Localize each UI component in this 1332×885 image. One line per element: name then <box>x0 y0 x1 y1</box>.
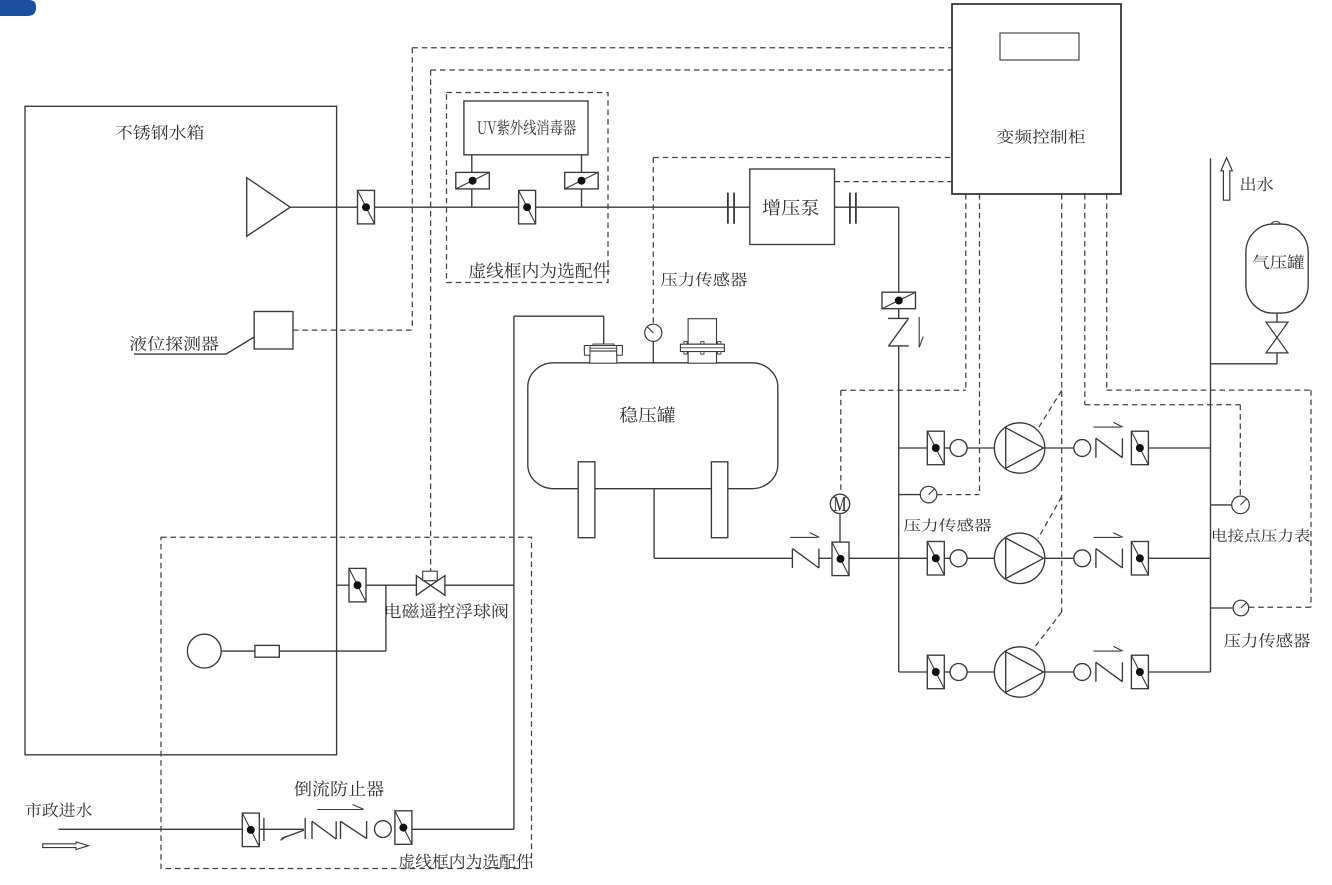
motor M circle <box>830 494 849 513</box>
control wire: tank pressure sensor to cabinet <box>653 157 951 159</box>
valve: pump2 suction <box>927 542 944 576</box>
leader line: level detector label <box>134 337 254 354</box>
wire: float arm <box>221 650 255 652</box>
pipe <box>944 671 950 673</box>
control wire: branch to pump3 <box>1036 612 1062 646</box>
check valve: pump2 discharge <box>1094 533 1123 568</box>
pipe: tank outlet to booster pump <box>290 206 750 208</box>
pump P2 <box>994 533 1044 583</box>
valve: tank outlet isolation <box>358 190 375 224</box>
control wire <box>937 494 980 496</box>
pipe <box>471 189 473 207</box>
pipe <box>366 584 417 586</box>
pipe: outlet manifold vertical / riser <box>1210 158 1212 672</box>
valve: after backflow preventer <box>395 811 412 845</box>
level detector box <box>254 312 293 350</box>
UV sterilizer box UV紫外线消毒器 <box>464 101 588 155</box>
check valve on riser (Z symbol with down arrow) <box>888 317 923 347</box>
pipe: pump3 discharge to outlet manifold <box>1149 671 1211 673</box>
pipe: pump1 suction branch <box>899 447 928 449</box>
control wire: cabinet to electric-contact gauge <box>1084 194 1086 405</box>
pipe <box>1045 557 1074 559</box>
control wire: branch to pump2 <box>1038 497 1062 539</box>
control wire: to sensor <box>1249 606 1311 608</box>
control wire <box>1107 389 1311 391</box>
tank leg right <box>711 462 727 538</box>
pipe: booster pump to drop leg <box>835 206 899 208</box>
pipe <box>1045 671 1074 673</box>
pipe <box>944 447 950 449</box>
pipe <box>967 447 994 449</box>
flex joint: pump3 discharge <box>1074 664 1091 681</box>
control wire: vertical <box>411 48 413 330</box>
manhole flange (left, small) <box>584 344 622 363</box>
electric contact pressure gauge 电接点压力表 <box>1232 496 1250 514</box>
check valve: pump3 discharge <box>1094 646 1123 681</box>
pipe: suction manifold vertical <box>898 346 900 672</box>
pipe: motor valve to suction manifold <box>849 557 899 559</box>
valve: pump1 suction <box>927 431 944 465</box>
pipe: stabilizing tank bottom outlet <box>653 489 655 559</box>
control wire <box>1085 404 1241 406</box>
pipe: UV right drop <box>581 155 583 173</box>
pipe: pump sensor tee <box>899 494 921 496</box>
gauge boss after backflow preventer <box>375 821 392 838</box>
booster pump box 增压泵 <box>750 169 835 245</box>
control wire: down to float valve actuator <box>430 70 432 571</box>
wire: float arm to hanger <box>279 650 386 652</box>
flex joint: pump2 discharge <box>1074 550 1091 567</box>
pipe: pump2 discharge to outlet manifold <box>1149 557 1211 559</box>
tank leg left <box>578 462 595 538</box>
pipe: tank outlet to check valve <box>654 557 792 559</box>
control wire <box>841 389 966 391</box>
cabinet display window <box>1000 33 1079 60</box>
wire: float arm hanger <box>385 585 387 651</box>
pipe: backflow preventer outlet to fill line <box>412 828 514 830</box>
control wire: down to tank gauge <box>652 158 654 324</box>
valve: municipal inlet <box>242 813 259 847</box>
pipe: tank wall to float isolation valve <box>337 584 350 586</box>
float arm counterweight <box>255 645 279 657</box>
pipe: air tank neck <box>1276 312 1278 322</box>
remote-controlled float valve 电磁遥控浮球阀 <box>416 571 445 595</box>
control wire: cabinet to pump pressure sensor <box>979 194 981 495</box>
control wire: level detector lead <box>293 329 412 331</box>
control wire: level detector to control cabinet <box>412 47 951 49</box>
stainless steel water tank 不锈钢水箱 <box>25 106 337 755</box>
check valve: stabilizing tank outlet <box>790 533 819 568</box>
pipe coupling bars (pump inlet) <box>727 193 729 224</box>
pipe <box>1045 447 1074 449</box>
pump P1 <box>994 423 1044 473</box>
valve: UV bypass on main pipe <box>519 190 536 224</box>
flex joint: pump1 discharge <box>1074 440 1091 457</box>
dashed optional-accessories box (bottom) <box>161 537 532 868</box>
municipal inlet hollow arrow <box>43 842 89 850</box>
pressure sensor (outlet) <box>1233 600 1249 616</box>
wire: motor to valve <box>839 514 841 541</box>
pipe: air tank tee <box>1211 363 1278 365</box>
control wire: cabinet to outlet pressure sensor <box>1106 194 1108 390</box>
pipe: drop leg down to solenoid valve <box>898 207 900 292</box>
control wire: branch to pump1 <box>1038 391 1062 429</box>
pipe: electric-contact gauge tee <box>1211 504 1233 506</box>
gate valve under air tank <box>1266 322 1288 353</box>
pipe <box>944 557 950 559</box>
solenoid valve: UV right <box>565 172 599 189</box>
pipe <box>1276 353 1278 364</box>
pipe: pressure sensor tee <box>1211 607 1234 609</box>
control wire: cabinet to motor valve <box>965 194 967 390</box>
pipe: pump1 discharge to outlet manifold <box>1149 447 1211 449</box>
dashed optional-accessories box (UV) <box>447 93 609 283</box>
backflow preventer 倒流防止器 (double N) <box>312 821 367 839</box>
pressure gauge on stabilizing tank <box>645 324 662 341</box>
pipe: inlet top run <box>514 315 604 317</box>
pipe coupling bars (pump outlet) <box>849 193 851 224</box>
stabilizing tank body 稳压罐 <box>528 363 778 489</box>
pipe: pump3 suction branch <box>899 671 928 673</box>
valve: pump2 discharge <box>1131 542 1148 576</box>
control wire: down to motor M <box>840 390 842 493</box>
inlet diffuser triangle <box>247 178 291 237</box>
flow direction arrow above backflow preventer <box>317 805 364 810</box>
strainer / check (bar and flap) <box>264 818 305 841</box>
corner logo (blue rounded tab) <box>0 0 36 16</box>
control wire <box>1310 390 1312 607</box>
solenoid valve: main riser <box>882 292 916 309</box>
pipe <box>819 557 832 559</box>
flex joint: pump2 suction <box>950 550 967 567</box>
control wire: down to gauge <box>1239 405 1241 497</box>
pipe <box>259 828 304 830</box>
pipe: fill line vertical <box>513 316 515 829</box>
valve: pump3 discharge <box>1131 655 1148 689</box>
pipe <box>967 557 994 559</box>
frequency control cabinet 变频控制柜 <box>952 4 1121 194</box>
solenoid valve: UV left <box>456 172 490 189</box>
pipe: municipal inlet <box>59 828 243 830</box>
valve: float valve isolation <box>349 568 366 602</box>
flex joint: pump1 suction <box>950 440 967 457</box>
pipe: UV left drop <box>471 155 473 173</box>
float ball <box>187 634 221 668</box>
pipe <box>967 671 994 673</box>
pipe <box>581 189 583 207</box>
pipe: stabilizing tank top inlet riser <box>603 316 605 363</box>
valve: pump1 discharge <box>1131 431 1148 465</box>
control wire: booster pump to cabinet <box>835 181 952 183</box>
valve: pump3 suction <box>927 655 944 689</box>
outlet flow arrow 出水 <box>1221 158 1232 201</box>
pipe: float valve to fill line <box>445 584 514 586</box>
pressure sensor (pump manifold) <box>920 486 937 503</box>
control wire: float valve to control cabinet <box>431 69 952 71</box>
air pressure tank 气压罐 <box>1246 221 1308 313</box>
safety-valve flange (right, large) <box>680 319 724 364</box>
pipe: pump2 suction branch <box>899 557 928 559</box>
pump P3 <box>994 647 1044 697</box>
check valve: pump1 discharge <box>1094 422 1123 457</box>
pipe: solenoid valve to check valve <box>898 309 900 319</box>
pipe: tank gauge neck <box>652 341 654 363</box>
flex joint: pump3 suction <box>950 664 967 681</box>
control wire: cabinet to pump motors <box>1061 194 1063 612</box>
motorised valve: stabilizing tank outlet <box>832 542 849 576</box>
